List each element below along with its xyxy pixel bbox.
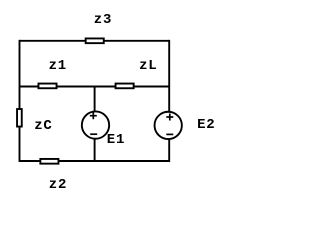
E1 minus sign: [90, 133, 97, 135]
circuit schematic canvas: [0, 0, 230, 204]
label E2: [197, 118, 215, 132]
source E1 circle: [82, 111, 109, 138]
resistor Z2: [40, 159, 58, 164]
label z1: [49, 59, 67, 73]
label z2: [49, 178, 67, 192]
resistor zC (vertical): [17, 109, 22, 127]
wire: top horizontal: [19, 40, 169, 42]
resistor zL: [116, 84, 134, 89]
label E1: [107, 133, 125, 147]
resistor Z1: [38, 84, 56, 89]
E2 plus sign: [166, 114, 173, 121]
label zL: [139, 59, 157, 73]
wire: E1 branch vertical: [94, 87, 96, 162]
wire: right vertical: [168, 40, 170, 162]
E2 minus sign: [166, 133, 173, 135]
source E2 circle: [155, 112, 182, 139]
label z3: [94, 13, 112, 27]
E1 plus sign: [90, 112, 97, 119]
label zC: [34, 119, 52, 133]
resistor Z3: [86, 38, 104, 43]
wire: middle horizontal: [19, 86, 169, 88]
wire: left vertical: [19, 40, 21, 162]
wire: bottom horizontal: [19, 160, 169, 162]
